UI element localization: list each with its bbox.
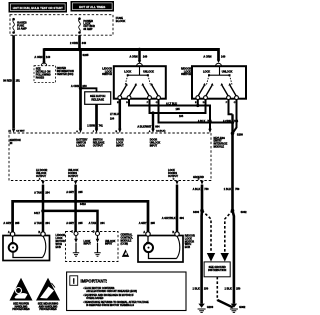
fuse block dashed boundary <box>10 15 125 36</box>
svg-text:295: 295 <box>78 221 83 225</box>
wire TAN 294 unlock output <box>34 185 50 232</box>
svg-text:HOT AT ALL TIMES: HOT AT ALL TIMES <box>79 5 105 9</box>
wire right ground solid run to G302 <box>225 211 241 304</box>
svg-text:A LT BLU: A LT BLU <box>166 102 177 105</box>
svg-text:MODULE: MODULE <box>214 146 225 149</box>
svg-text:C2 WHT: C2 WHT <box>16 131 25 133</box>
wire breaker to splice S205 <box>70 35 87 49</box>
module U1 keyless entry dashed outline <box>9 133 228 181</box>
warning triangle ESD small <box>122 249 129 257</box>
svg-text:S417: S417 <box>34 211 41 215</box>
wire main ORN bus <box>44 48 219 51</box>
motor M1 left door lock motor <box>3 231 65 260</box>
wire right switch pin F to ground bus <box>229 100 235 134</box>
wire LT BLU 195 lock bus <box>129 100 210 130</box>
svg-text:39 RED: 39 RED <box>3 79 12 83</box>
wire battery feed to module terminal A <box>79 50 82 130</box>
svg-text:HOT IN RUN, BULB TEST OR START: HOT IN RUN, BULB TEST OR START <box>13 6 63 10</box>
svg-text:UNLOCK: UNLOCK <box>222 70 233 73</box>
svg-text:A ORN: A ORN <box>203 54 211 58</box>
svg-text:A GRY: A GRY <box>66 190 74 194</box>
svg-text:194: 194 <box>110 117 115 120</box>
svg-text:240: 240 <box>82 84 87 88</box>
note box SEE GROUND DISTRIBUTION <box>204 262 230 277</box>
wire lock doors output to right motor <box>162 185 185 232</box>
svg-text:A GRY: A GRY <box>139 221 147 225</box>
svg-text:150: 150 <box>236 286 241 290</box>
wire BLK 794 ground bus <box>159 100 239 124</box>
svg-text:294: 294 <box>100 221 105 225</box>
svg-text:10 AMP: 10 AMP <box>17 27 27 31</box>
svg-text:PAGES: PAGES <box>36 76 45 79</box>
svg-text:IS REMOVED FROM MOTOR TERMINAL: IS REMOVED FROM MOTOR TERMINALS <box>86 304 134 307</box>
wire drop to right door lock switch <box>203 48 225 66</box>
svg-text:LOCK: LOCK <box>203 70 210 73</box>
svg-text:IMPORTANT:: IMPORTANT: <box>81 279 108 284</box>
node junction hatch stub <box>71 84 97 92</box>
header feed HOT IN RUN <box>9 2 68 13</box>
splice S416 <box>74 200 87 207</box>
svg-text:A BLK: A BLK <box>198 120 206 123</box>
svg-text:PROCEDURES: PROCEDURES <box>39 308 57 311</box>
wire GRY lock bus <box>3 201 155 232</box>
svg-text:294: 294 <box>45 221 50 225</box>
svg-text:LT BLU: LT BLU <box>110 113 119 116</box>
svg-text:G302: G302 <box>239 305 246 309</box>
svg-text:C: C <box>71 231 73 234</box>
module bottom pins <box>41 181 203 185</box>
svg-text:150: 150 <box>204 286 209 290</box>
ground CCM unlock input <box>94 253 100 256</box>
svg-text:SWITCH: SWITCH <box>181 73 191 76</box>
svg-text:G200: G200 <box>207 305 214 309</box>
svg-text:GROUND: GROUND <box>193 176 204 179</box>
wire GRY 295 lock output <box>66 185 83 234</box>
node junction at left switch drop <box>138 48 141 51</box>
wire dashed right to ground distribution <box>221 211 233 262</box>
svg-text:750: 750 <box>235 187 240 191</box>
svg-text:794: 794 <box>207 120 212 123</box>
svg-text:SEE HATCH: SEE HATCH <box>90 94 105 98</box>
label DRIVER INFORMATION CENTER <box>57 67 74 76</box>
splice S205 <box>78 48 89 58</box>
splice S300 <box>193 209 204 214</box>
module pin name labels top <box>10 139 161 148</box>
header feed HOT AT ALL TIMES <box>71 1 115 12</box>
svg-text:694: 694 <box>155 125 160 128</box>
svg-text:A TAN: A TAN <box>34 221 42 225</box>
svg-text:B: B <box>38 231 40 234</box>
svg-text:ECB: ECB <box>56 246 61 249</box>
svg-text:LOADS: LOADS <box>76 145 85 148</box>
svg-text:1 BLK: 1 BLK <box>224 187 232 191</box>
wire dashed left to ground distribution <box>202 211 215 262</box>
svg-text:LOCK: LOCK <box>124 70 131 73</box>
svg-text:D: D <box>93 231 95 234</box>
svg-text:140: 140 <box>221 54 226 58</box>
svg-text:750: 750 <box>204 187 209 191</box>
svg-text:140: 140 <box>46 55 51 59</box>
svg-text:OUTPUT: OUTPUT <box>68 175 79 178</box>
svg-text:OUTPUT: OUTPUT <box>36 175 47 178</box>
svg-text:151: 151 <box>16 79 21 83</box>
wire right switch pin E drop <box>196 100 199 108</box>
splice S302 <box>231 209 247 214</box>
svg-text:195: 195 <box>176 108 181 111</box>
svg-text:A TAN: A TAN <box>34 190 42 194</box>
module U2 central control module dashed box <box>66 231 134 262</box>
circuit breaker POWER LOCK 30A <box>78 17 95 33</box>
svg-text:(CCM): (CCM) <box>121 242 129 245</box>
svg-text:A ORN: A ORN <box>223 120 231 123</box>
svg-text:INPUT: INPUT <box>116 145 124 148</box>
svg-text:BLOCK: BLOCK <box>116 19 126 23</box>
wire right ground BLK 750 <box>224 133 240 210</box>
ground CCM lock input <box>73 253 79 256</box>
svg-text:RELEASE: RELEASE <box>91 97 104 101</box>
svg-text:S300: S300 <box>193 210 200 214</box>
svg-text:INPUT: INPUT <box>84 243 92 246</box>
svg-text:A ORN: A ORN <box>71 84 79 88</box>
svg-text:294: 294 <box>45 190 50 194</box>
svg-text:A GRY: A GRY <box>3 221 11 225</box>
svg-text:S209: S209 <box>237 132 244 136</box>
wire left ground solid run to G200 <box>193 211 209 304</box>
svg-text:SEE GROUND: SEE GROUND <box>209 265 226 269</box>
svg-text:OUTPUT: OUTPUT <box>168 175 179 178</box>
switch SW2 right door lock switch <box>181 66 246 104</box>
wire unlock input to module <box>137 111 160 129</box>
svg-text:S205: S205 <box>83 53 90 57</box>
svg-text:PROCEDURES: PROCEDURES <box>12 308 30 311</box>
svg-text:A: A <box>8 231 10 234</box>
wire left switch pin E to module <box>110 100 120 130</box>
splice S209 <box>231 132 244 137</box>
module pin name labels bottom <box>36 169 204 179</box>
wire module ground BLK 750 <box>193 185 210 211</box>
note box IMPORTANT <box>67 272 186 311</box>
svg-text:SWITCH: SWITCH <box>102 73 112 76</box>
module top pins <box>8 129 211 181</box>
svg-text:A GRY/BLK: A GRY/BLK <box>162 216 176 220</box>
svg-text:B: B <box>172 231 174 234</box>
svg-text:A BLK/WHT: A BLK/WHT <box>137 125 151 128</box>
svg-text:A: A <box>143 231 145 234</box>
svg-text:1 BRN: 1 BRN <box>87 123 95 127</box>
svg-text:194: 194 <box>179 115 184 118</box>
DIC note dashed box <box>34 66 56 83</box>
wire DK BLU 194 bus <box>150 100 206 119</box>
wire right switch pin C to splice S209 <box>233 100 237 134</box>
ground G200 <box>198 304 214 313</box>
wire hatch release output <box>87 104 103 129</box>
svg-text:OVERLOADED: OVERLOADED <box>86 297 103 300</box>
wire TAN bus to CCM unlock input <box>43 211 105 234</box>
svg-text:741: 741 <box>99 123 104 127</box>
svg-text:A TAN: A TAN <box>89 221 97 225</box>
svg-text:295: 295 <box>78 190 83 194</box>
wire fuse1 to module (PNK ignition feed) <box>3 35 20 128</box>
svg-text:140: 140 <box>143 55 148 59</box>
svg-text:INPUT: INPUT <box>105 243 113 246</box>
fuse F1 GAGES 10A <box>12 18 27 34</box>
switch SW1 left door lock switch <box>102 66 166 104</box>
svg-text:295: 295 <box>151 221 156 225</box>
svg-text:!: ! <box>72 277 75 286</box>
svg-text:A ORN: A ORN <box>34 55 42 59</box>
svg-text:A BLK: A BLK <box>193 187 201 191</box>
svg-text:S302: S302 <box>241 210 248 214</box>
warning triangle ESD handling <box>10 278 33 311</box>
svg-text:INPUT: INPUT <box>150 145 158 148</box>
svg-text:IN: IN <box>10 142 13 145</box>
motor M2 right door lock motor <box>138 231 195 262</box>
warning triangle ESD measuring <box>36 278 60 311</box>
svg-text:DISTRIBUTION: DISTRIBUTION <box>208 268 226 272</box>
wire dashed below distribution box <box>217 277 233 308</box>
svg-text:A GRY: A GRY <box>66 221 74 225</box>
svg-text:UNLOCK: UNLOCK <box>143 70 154 73</box>
ground G302 <box>230 304 246 313</box>
svg-text:694: 694 <box>180 216 185 220</box>
svg-text:30 AMP: 30 AMP <box>83 27 92 31</box>
svg-text:ECB: ECB <box>185 246 190 249</box>
svg-text:295: 295 <box>15 221 20 225</box>
svg-text:A ORN: A ORN <box>129 55 137 59</box>
note box SEE HATCH RELEASE <box>85 92 111 105</box>
splice S417 <box>34 209 45 215</box>
node CCM lock input <box>74 236 91 253</box>
svg-text:CENTER (DIC): CENTER (DIC) <box>57 73 74 76</box>
wire drop to DIC <box>34 48 50 65</box>
svg-text:C2 (BLK): C2 (BLK) <box>156 131 166 133</box>
svg-text:1 BLK: 1 BLK <box>225 286 233 290</box>
svg-text:1 BLK: 1 BLK <box>193 286 201 290</box>
svg-text:AN ELECTRONIC CIRCUIT BREAKER: AN ELECTRONIC CIRCUIT BREAKER (ECB) <box>86 290 137 293</box>
wire drop to left door lock switch <box>129 48 147 66</box>
svg-text:340: 340 <box>82 41 87 45</box>
node CCM unlock input <box>96 236 116 253</box>
svg-text:2 ORN: 2 ORN <box>70 41 78 45</box>
svg-text:OUTPUT: OUTPUT <box>93 145 104 148</box>
